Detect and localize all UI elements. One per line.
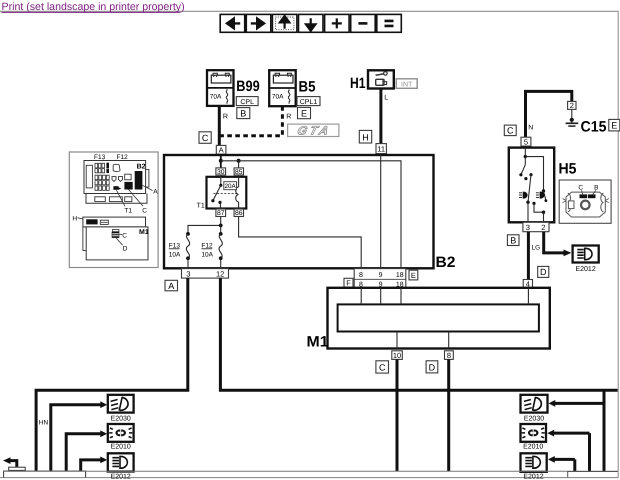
lamp E2012 (outer right) [573, 246, 599, 273]
svg-text:18: 18 [396, 272, 404, 279]
junction dot 30 [219, 159, 223, 163]
ground C15 [566, 109, 579, 126]
wire B2 pin 3 rail to left lamps [36, 278, 188, 471]
svg-text:70A: 70A [272, 94, 284, 101]
wire B2 pin 12 rail to right lamps [220, 278, 617, 390]
inset fuse box illustration (B2 location) [84, 154, 158, 215]
svg-text:E: E [611, 120, 617, 130]
svg-text:E2010: E2010 [523, 443, 543, 450]
svg-text:GTA: GTA [296, 124, 333, 138]
wire branch to E2010 right [547, 430, 589, 472]
B2/M1 pin rows 8 9 18 [354, 269, 406, 289]
H5 connector face inset [559, 180, 611, 223]
svg-text:9: 9 [379, 272, 383, 279]
svg-text:E2030: E2030 [524, 415, 544, 422]
toolbar button left [220, 14, 245, 32]
toolbar button right [246, 14, 270, 32]
wire branch to E2012 left [81, 457, 107, 472]
light switch H5 [509, 148, 554, 223]
pin label C (below M1) [376, 361, 389, 373]
svg-text:B: B [510, 235, 516, 245]
lamp E2010 left (position) [108, 424, 134, 450]
connector label CPL1 [297, 97, 320, 106]
svg-text:E2012: E2012 [575, 266, 595, 273]
svg-text:LG: LG [532, 245, 541, 252]
wire node A to relay pin 30 [220, 154, 222, 168]
svg-text:12: 12 [216, 269, 224, 278]
svg-text:T1: T1 [197, 203, 205, 210]
connector label INT [396, 79, 417, 89]
wire 87 to fuses [186, 217, 223, 236]
pin label E [298, 107, 311, 118]
svg-text:C: C [379, 363, 386, 373]
svg-text:INT: INT [401, 81, 413, 88]
wire H5 pin5 to ground C15 [526, 91, 572, 137]
M1 pin 8 [445, 351, 454, 360]
pin 5 [521, 137, 531, 146]
svg-text:F12: F12 [117, 154, 129, 161]
pin label B (below H5) [507, 235, 519, 246]
svg-text:70A: 70A [210, 94, 222, 101]
lamp E2012 right (low beam) [521, 453, 547, 480]
svg-text:F13: F13 [169, 242, 181, 249]
svg-text:T1: T1 [124, 207, 132, 214]
svg-text:2: 2 [541, 223, 545, 232]
dashed wire B5 to node A [221, 106, 283, 136]
svg-text:N: N [528, 124, 533, 131]
junction dot 85 [237, 159, 241, 163]
svg-text:86: 86 [235, 210, 243, 217]
svg-text:10: 10 [393, 351, 401, 360]
M1 pin 10 [392, 351, 403, 360]
relay pin 30 [216, 168, 226, 176]
svg-text:3: 3 [186, 269, 190, 278]
svg-text:85: 85 [235, 169, 243, 176]
svg-text:C: C [122, 232, 127, 239]
svg-text:E2012: E2012 [111, 474, 131, 480]
toolbar button minus [351, 14, 376, 32]
svg-text:CPL: CPL [240, 99, 254, 106]
svg-text:F: F [346, 279, 351, 288]
pin label C (left of node A) [199, 132, 211, 144]
svg-text:H1: H1 [350, 75, 366, 92]
svg-text:B2: B2 [137, 163, 146, 170]
svg-text:C: C [507, 126, 514, 136]
bottom boundary line [4, 470, 618, 472]
pin label E (B2 bottom) [409, 270, 418, 280]
svg-text:B99: B99 [236, 78, 259, 95]
wire M1 pin 10 down [396, 359, 399, 471]
svg-text:A: A [168, 281, 174, 291]
svg-text:8: 8 [447, 351, 451, 360]
pin label E (right edge) [609, 119, 620, 130]
control module M1 [328, 288, 550, 349]
B2 pins 3 and 12 [182, 269, 229, 279]
wire H5 pin2 to lamp E2012 [544, 232, 572, 257]
svg-text:E: E [411, 271, 416, 280]
svg-text:C: C [202, 133, 209, 143]
svg-text:CPL1: CPL1 [300, 99, 318, 106]
pin label A (below B2 pin 3) [165, 280, 178, 291]
toolbar button plus [325, 14, 350, 32]
svg-text:30: 30 [217, 169, 225, 176]
lamp E2012 left (low beam) [108, 453, 134, 480]
battery B5 [269, 70, 296, 106]
inset M1 module illustration [72, 216, 148, 260]
wire branch to E2012 right [548, 456, 575, 471]
svg-text:B: B [240, 108, 246, 118]
svg-text:E2010: E2010 [111, 443, 131, 450]
svg-text:R: R [286, 113, 291, 120]
svg-text:87: 87 [217, 210, 225, 217]
battery B99 [207, 70, 234, 106]
svg-text:B5: B5 [299, 79, 316, 96]
pin label B [237, 108, 250, 119]
svg-text:E2012: E2012 [523, 474, 543, 480]
GTA logo [288, 124, 339, 138]
fuse F12 [219, 234, 223, 269]
lamp E2030 right (high beam) [521, 395, 548, 423]
svg-text:F12: F12 [201, 242, 213, 249]
svg-text:20A: 20A [224, 183, 236, 190]
relay pin 86 [234, 209, 243, 217]
wire pin 11 to pin 9 [380, 154, 382, 268]
svg-text:C: C [578, 185, 583, 192]
fuse F13 [186, 234, 190, 269]
svg-text:A: A [153, 188, 158, 195]
pin label C (H5 feed) [504, 125, 516, 136]
svg-text:E2030: E2030 [111, 415, 131, 422]
relay pin 85 [234, 168, 243, 176]
toolbar button equals [377, 14, 402, 32]
svg-text:H: H [72, 216, 77, 223]
H5 internal lamp icon left [519, 192, 528, 199]
node A pin box [216, 145, 226, 154]
M1 internal wires top [361, 288, 528, 305]
svg-text:L: L [384, 95, 388, 102]
wire junction to pin 18 drop [221, 161, 401, 269]
svg-text:C: C [142, 207, 147, 214]
svg-text:B2: B2 [436, 254, 456, 271]
pin label F (M1 top) [344, 278, 353, 287]
svg-text:3: 3 [526, 223, 530, 232]
wire branch to E2010 left [66, 430, 107, 471]
svg-text:10A: 10A [201, 252, 213, 259]
svg-text:5: 5 [524, 137, 528, 146]
svg-text:HN: HN [39, 420, 49, 427]
svg-text:11: 11 [377, 145, 385, 154]
wire branch to E2030 left [51, 401, 107, 471]
svg-text:2: 2 [570, 101, 574, 110]
relay pin 87 [216, 209, 226, 217]
toolbar button up (focused) [272, 14, 297, 32]
toolbar button down [299, 14, 324, 32]
svg-text:B: B [594, 185, 598, 192]
bottom cut-off component box left [4, 471, 86, 477]
svg-text:D: D [429, 363, 436, 373]
svg-text:A: A [219, 145, 224, 154]
svg-text:H5: H5 [559, 161, 577, 178]
H5 internal lamp icon right [536, 192, 545, 199]
M1 internal wires bottom [397, 332, 449, 349]
pin 11 [376, 144, 386, 154]
H5 pins 3 and 2 [523, 222, 549, 232]
svg-text:Print (set landscape in printe: Print (set landscape in printer property… [2, 1, 185, 13]
switch H1 (ignition key) [368, 70, 394, 88]
pin label H [359, 130, 371, 143]
bottom cut-off component box right [568, 472, 618, 478]
svg-text:M1: M1 [307, 334, 329, 351]
lamp E2030 left (high beam) [108, 395, 134, 423]
lamp E2010 right (position) [521, 424, 547, 450]
wire H1 to pin 11 [379, 89, 382, 144]
H5 internal wiring [519, 148, 547, 223]
location inset frame [69, 152, 158, 268]
wire branch to E2030 right [549, 390, 605, 471]
svg-text:8: 8 [359, 272, 363, 279]
M1 pin 4 [523, 279, 532, 288]
label F13 10A [169, 242, 181, 258]
svg-text:10A: 10A [169, 252, 181, 259]
wire M1 pin 8 down [447, 359, 450, 471]
svg-text:H: H [362, 132, 369, 142]
svg-text:C15: C15 [581, 118, 607, 135]
fuse/relay box B2 [164, 155, 434, 268]
relay fuse 20A label [224, 182, 237, 190]
wire B99 to node A [218, 106, 221, 145]
ground symbol bottom left [3, 457, 25, 470]
pin label D (below M1) [426, 361, 438, 373]
pin label D (near M1 pin4) [538, 266, 549, 277]
wire H5 pin3 to M1 pin4 [527, 232, 530, 280]
print link [2, 1, 185, 13]
svg-text:M1: M1 [139, 229, 149, 236]
connector label CPL [236, 97, 258, 106]
svg-text:F13: F13 [94, 154, 106, 161]
relay T1 [207, 175, 247, 209]
wire 86 to pin 8 [239, 217, 362, 269]
svg-text:R: R [223, 113, 228, 120]
svg-text:D: D [540, 267, 547, 277]
label F12 10A [201, 242, 213, 258]
pin 2 (ground lead) [568, 101, 576, 110]
M1 inner block [338, 304, 539, 331]
wire 85 stub [238, 161, 240, 168]
svg-text:D: D [123, 246, 128, 253]
svg-text:E: E [301, 108, 307, 118]
